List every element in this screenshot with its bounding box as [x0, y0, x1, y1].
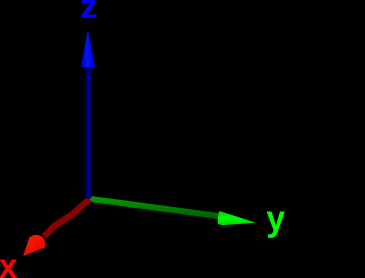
z-axis shaft (blue) — [86, 67, 92, 199]
y-axis arrowhead cone — [218, 211, 256, 225]
svg-text:y: y — [266, 198, 285, 239]
x-axis arrowhead cone — [23, 235, 45, 256]
y-axis shaft (green) — [90, 199, 222, 217]
x-axis shaft (dark red) — [44, 199, 90, 237]
z-axis arrowhead cone — [81, 30, 96, 68]
svg-text:x: x — [0, 247, 18, 278]
svg-text:z: z — [80, 0, 98, 26]
